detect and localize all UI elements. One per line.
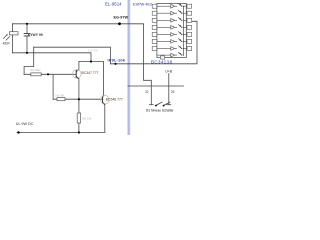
svg-text:IP9L-10k: IP9L-10k [108,57,126,62]
svg-text:BC34138: BC34138 [151,60,173,65]
svg-text:32: 32 [145,90,149,94]
svg-text:26: 26 [171,90,175,94]
svg-text:UL 9W DC: UL 9W DC [16,122,34,126]
svg-text:1F4 9kw: 1F4 9kw [29,68,41,72]
svg-text:BC548 777: BC548 777 [106,98,123,102]
svg-text:ESPW 4E2: ESPW 4E2 [133,1,152,6]
svg-text:EL-9514: EL-9514 [105,1,122,6]
svg-text:EG-97W: EG-97W [114,15,129,19]
svg-text:BC347 777: BC347 777 [82,71,99,75]
svg-text:100 10k: 100 10k [82,117,93,121]
svg-text:B1 Niveau Schalter: B1 Niveau Schalter [146,109,174,113]
svg-text:LW 39k: LW 39k [55,94,65,98]
svg-text:-KER: -KER [2,42,11,46]
svg-text:KYWY 99: KYWY 99 [28,33,43,37]
svg-text:U+B: U+B [165,70,172,74]
svg-text:EW 39k: EW 39k [88,49,98,53]
